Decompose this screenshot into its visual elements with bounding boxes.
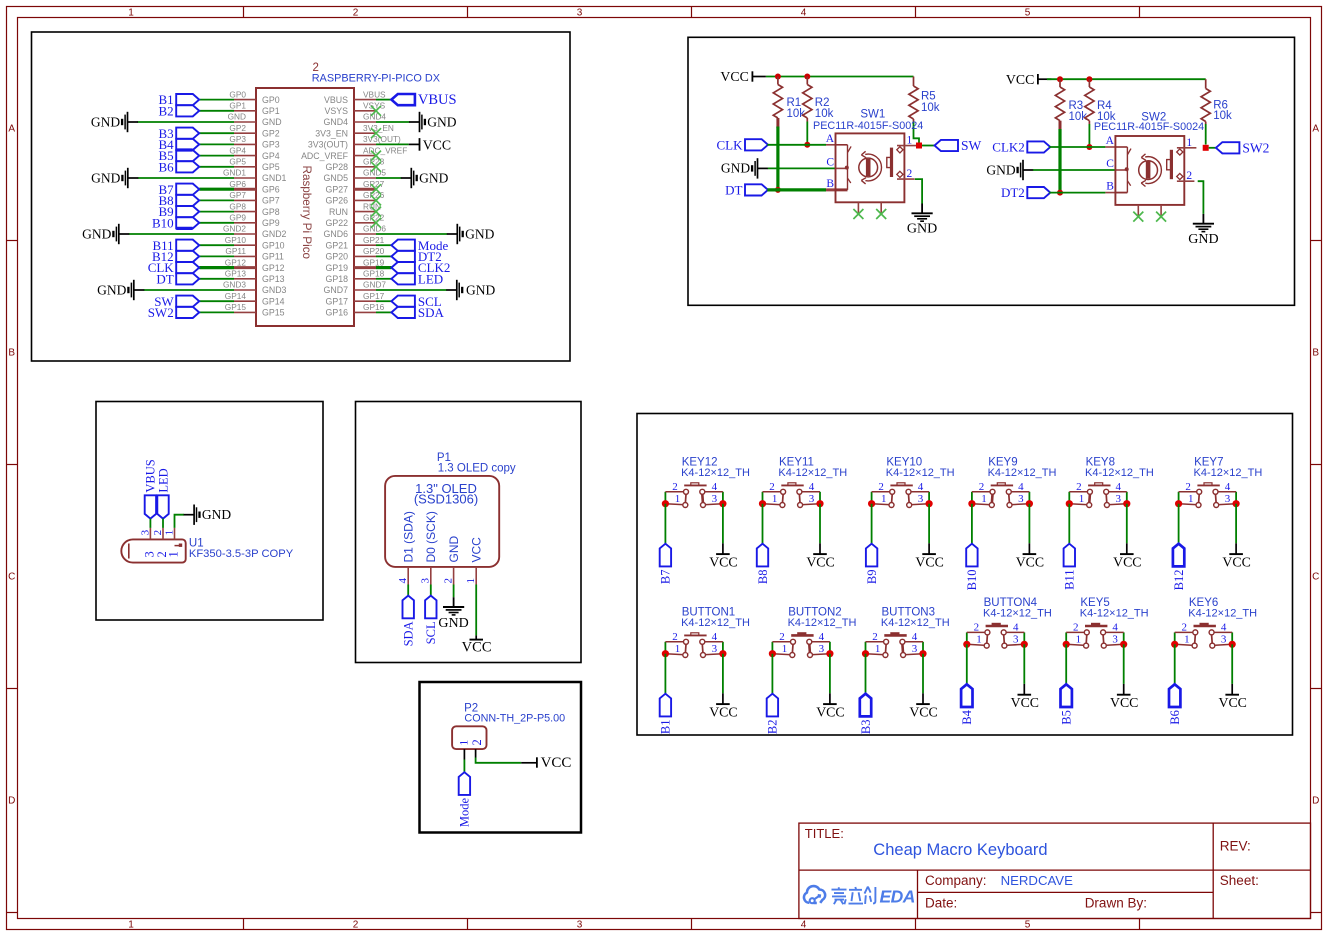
power flag VCC bbox=[1006, 72, 1051, 87]
key switch KEY11 bbox=[763, 457, 848, 508]
svg-text:2: 2 bbox=[979, 481, 985, 493]
svg-text:C: C bbox=[1312, 572, 1319, 583]
wire bbox=[806, 118, 808, 122]
wire bbox=[199, 143, 234, 145]
net flag SW2 bbox=[148, 305, 200, 320]
svg-text:GP14: GP14 bbox=[225, 291, 247, 301]
wire bbox=[129, 233, 234, 235]
wire bbox=[776, 127, 779, 190]
svg-text:GND: GND bbox=[466, 282, 495, 297]
wire bbox=[199, 300, 234, 302]
net flag DT bbox=[156, 271, 199, 286]
no-connect X bbox=[1133, 212, 1143, 222]
svg-text:2: 2 bbox=[442, 578, 454, 584]
svg-text:10k: 10k bbox=[921, 102, 940, 114]
no-connect X bbox=[853, 209, 863, 219]
wire bbox=[376, 244, 391, 246]
svg-text:GND: GND bbox=[447, 536, 461, 563]
svg-text:D0 (SCK): D0 (SCK) bbox=[424, 511, 438, 562]
power flag VCC bbox=[462, 635, 492, 655]
net flag B10 bbox=[152, 215, 199, 230]
svg-text:3: 3 bbox=[1225, 493, 1231, 505]
wire bbox=[913, 119, 915, 122]
svg-text:4: 4 bbox=[1221, 622, 1227, 634]
svg-text:3: 3 bbox=[420, 578, 432, 584]
power flag VCC bbox=[1016, 543, 1044, 569]
svg-text:GP10: GP10 bbox=[262, 240, 285, 250]
net flag B6 bbox=[159, 159, 200, 174]
junction bbox=[719, 500, 726, 507]
net flag B11 bbox=[1063, 544, 1077, 590]
ground bbox=[91, 112, 138, 132]
junction bbox=[1229, 641, 1236, 648]
svg-text:K4-12×12_TH: K4-12×12_TH bbox=[681, 467, 750, 479]
svg-text:GP3: GP3 bbox=[229, 134, 246, 144]
svg-text:CLK2: CLK2 bbox=[992, 140, 1025, 155]
wire bbox=[1068, 504, 1070, 544]
wire bbox=[777, 77, 779, 85]
wire bbox=[1178, 504, 1180, 544]
key switch KEY12 bbox=[665, 457, 750, 508]
svg-text:2: 2 bbox=[974, 622, 980, 634]
svg-text:B11: B11 bbox=[1063, 570, 1077, 590]
net flag SDA bbox=[402, 596, 416, 647]
svg-text:4: 4 bbox=[397, 578, 409, 584]
power flag VCC bbox=[709, 693, 737, 719]
P1 pin 4 D1 (SDA) bbox=[397, 511, 415, 584]
wire bbox=[149, 519, 151, 528]
key switch KEY9 bbox=[972, 457, 1057, 508]
net flag Mode bbox=[458, 772, 472, 827]
svg-text:1: 1 bbox=[907, 135, 913, 147]
wire bbox=[1205, 79, 1207, 88]
svg-text:D1 (SDA): D1 (SDA) bbox=[401, 511, 415, 562]
P2 pin 1 bbox=[458, 740, 470, 760]
svg-text:3V3(OUT): 3V3(OUT) bbox=[308, 140, 348, 150]
junction bbox=[662, 650, 669, 657]
svg-text:GP11: GP11 bbox=[262, 252, 284, 262]
net flag CLK bbox=[148, 260, 200, 275]
svg-text:CONN-TH_2P-P5.00: CONN-TH_2P-P5.00 bbox=[464, 712, 565, 724]
wire bbox=[144, 289, 234, 291]
net flag DT bbox=[725, 183, 768, 198]
junction bbox=[804, 142, 810, 148]
svg-text:GP5: GP5 bbox=[262, 162, 280, 172]
net flag SCL bbox=[391, 294, 441, 309]
svg-text:1: 1 bbox=[675, 643, 681, 655]
border row ticks bbox=[7, 241, 1322, 913]
svg-text:EDA: EDA bbox=[880, 886, 915, 906]
svg-text:3: 3 bbox=[577, 7, 583, 18]
svg-text:GP8: GP8 bbox=[262, 207, 280, 217]
junction bbox=[769, 650, 776, 657]
wire bbox=[199, 278, 234, 280]
component U2 Raspberry Pi Pico body bbox=[256, 88, 354, 326]
wire bbox=[199, 255, 234, 257]
wire bbox=[914, 122, 920, 144]
wire bbox=[922, 145, 935, 147]
wire bbox=[453, 585, 455, 598]
net flag B1 bbox=[159, 92, 200, 107]
svg-text:GP10: GP10 bbox=[225, 235, 247, 245]
svg-text:C: C bbox=[1106, 158, 1114, 170]
svg-text:GP7: GP7 bbox=[229, 190, 246, 200]
svg-text:DT2: DT2 bbox=[1001, 185, 1025, 200]
svg-text:GP2: GP2 bbox=[262, 128, 280, 138]
svg-text:GP26: GP26 bbox=[326, 196, 349, 206]
svg-text:GP0: GP0 bbox=[262, 95, 280, 105]
wire bbox=[768, 167, 836, 169]
wire bbox=[376, 278, 391, 280]
svg-text:GND: GND bbox=[91, 170, 120, 185]
wire bbox=[806, 122, 808, 145]
svg-text:NERDCAVE: NERDCAVE bbox=[1001, 873, 1074, 888]
svg-text:GND3: GND3 bbox=[262, 285, 287, 295]
svg-text:SW1: SW1 bbox=[860, 109, 885, 121]
svg-text:2: 2 bbox=[878, 481, 884, 493]
wire bbox=[1088, 79, 1090, 87]
svg-text:10k: 10k bbox=[1213, 110, 1232, 122]
wire bbox=[162, 519, 164, 528]
svg-text:1: 1 bbox=[167, 551, 181, 557]
svg-text:VCC: VCC bbox=[469, 537, 483, 563]
svg-text:3V3_EN: 3V3_EN bbox=[315, 128, 348, 138]
svg-text:GP17: GP17 bbox=[326, 296, 349, 306]
svg-text:B: B bbox=[1106, 181, 1114, 193]
svg-text:GND4: GND4 bbox=[324, 117, 349, 127]
svg-text:4: 4 bbox=[801, 7, 807, 18]
junction bbox=[1026, 500, 1033, 507]
junction bbox=[826, 650, 833, 657]
wire bbox=[476, 758, 522, 763]
svg-text:K4-12×12_TH: K4-12×12_TH bbox=[881, 617, 950, 629]
svg-text:GND3: GND3 bbox=[223, 280, 246, 290]
component U1 KF350 body bbox=[121, 539, 185, 562]
ground bbox=[721, 158, 768, 178]
svg-text:GP21: GP21 bbox=[363, 235, 385, 245]
power flag VCC bbox=[720, 69, 765, 84]
svg-text:3: 3 bbox=[1018, 493, 1024, 505]
svg-text:GND: GND bbox=[202, 507, 231, 522]
svg-text:GP16: GP16 bbox=[363, 302, 385, 312]
module box Raspberry Pi Pico bbox=[32, 32, 571, 361]
wire bbox=[1198, 181, 1204, 214]
no-connect X bbox=[371, 128, 381, 138]
wire bbox=[966, 644, 968, 684]
power flag VCC bbox=[709, 543, 737, 569]
wire bbox=[199, 110, 234, 112]
resistor R4 bbox=[1085, 87, 1116, 123]
svg-text:SW2: SW2 bbox=[1242, 140, 1269, 155]
svg-text:1: 1 bbox=[675, 493, 681, 505]
svg-text:GP21: GP21 bbox=[326, 240, 349, 250]
svg-text:GP19: GP19 bbox=[363, 257, 385, 267]
wire bbox=[1123, 644, 1125, 684]
svg-text:VCC: VCC bbox=[1222, 554, 1250, 569]
no-connect X bbox=[371, 218, 381, 228]
junction bbox=[1057, 190, 1063, 196]
svg-text:2: 2 bbox=[353, 7, 359, 18]
svg-text:VCC: VCC bbox=[806, 554, 834, 569]
net flag B8 bbox=[756, 544, 770, 584]
net flag B2 bbox=[766, 694, 780, 734]
ground bbox=[409, 112, 457, 132]
svg-text:VCC: VCC bbox=[1011, 695, 1039, 710]
svg-text:3: 3 bbox=[712, 493, 718, 505]
junction bbox=[968, 500, 975, 507]
svg-text:1: 1 bbox=[981, 493, 987, 505]
svg-text:B8: B8 bbox=[756, 570, 770, 585]
svg-text:GND: GND bbox=[228, 112, 246, 122]
wire bbox=[1028, 504, 1030, 544]
svg-text:B12: B12 bbox=[1172, 570, 1186, 591]
P2 pin 2 bbox=[470, 739, 484, 757]
svg-text:GND: GND bbox=[907, 222, 937, 237]
svg-text:K4-12×12_TH: K4-12×12_TH bbox=[1188, 608, 1257, 620]
wire bbox=[766, 76, 914, 78]
net flag VBUS bbox=[391, 92, 456, 108]
svg-text:K4-12×12_TH: K4-12×12_TH bbox=[1080, 608, 1149, 620]
wire bbox=[1174, 644, 1176, 684]
junction bbox=[868, 500, 875, 507]
svg-text:4: 4 bbox=[809, 481, 815, 493]
svg-text:4: 4 bbox=[712, 481, 718, 493]
wire bbox=[138, 121, 235, 123]
svg-text:GP6: GP6 bbox=[262, 184, 280, 194]
svg-text:4: 4 bbox=[801, 920, 807, 931]
net flag B6 bbox=[1168, 684, 1182, 724]
svg-text:VCC: VCC bbox=[1113, 554, 1141, 569]
resistor R5 bbox=[909, 86, 940, 119]
net flag B10 bbox=[965, 544, 979, 591]
svg-text:4: 4 bbox=[1112, 622, 1118, 634]
svg-text:3: 3 bbox=[918, 493, 924, 505]
P1 pin 2 GND bbox=[442, 536, 460, 585]
svg-text:ADC_VREF: ADC_VREF bbox=[363, 145, 407, 155]
svg-text:3: 3 bbox=[1112, 633, 1118, 645]
svg-text:GND: GND bbox=[986, 162, 1015, 177]
key switch KEY5 bbox=[1066, 597, 1148, 648]
wire bbox=[1059, 79, 1061, 87]
svg-text:GP9: GP9 bbox=[229, 213, 246, 223]
no-connect X bbox=[876, 209, 886, 219]
junction bbox=[1066, 500, 1073, 507]
no-connect X bbox=[1156, 212, 1166, 222]
svg-text:VCC: VCC bbox=[462, 639, 492, 655]
junction bbox=[926, 500, 933, 507]
svg-text:TITLE:: TITLE: bbox=[805, 826, 844, 841]
power flag VCC bbox=[409, 138, 451, 153]
wire bbox=[971, 504, 973, 544]
wire bbox=[722, 654, 724, 694]
svg-text:B2: B2 bbox=[766, 720, 780, 735]
wire bbox=[376, 143, 409, 145]
svg-text:4: 4 bbox=[1013, 622, 1019, 634]
key switch BUTTON4 bbox=[967, 597, 1052, 648]
junction bbox=[1021, 641, 1028, 648]
ground bbox=[1188, 214, 1218, 247]
svg-text:2: 2 bbox=[872, 631, 878, 643]
no-connect X bbox=[371, 195, 381, 205]
junction bbox=[719, 650, 726, 657]
svg-text:VCC: VCC bbox=[915, 554, 943, 569]
svg-text:2: 2 bbox=[1185, 481, 1191, 493]
svg-text:ADC_VREF: ADC_VREF bbox=[301, 151, 349, 161]
svg-text:GP11: GP11 bbox=[225, 246, 246, 256]
pin C stub bbox=[1115, 169, 1125, 171]
wire bbox=[806, 77, 808, 85]
wire bbox=[1049, 192, 1105, 194]
junction bbox=[775, 74, 781, 80]
svg-text:GP12: GP12 bbox=[225, 257, 247, 267]
svg-text:Company:: Company: bbox=[925, 873, 987, 888]
svg-text:GP13: GP13 bbox=[262, 274, 285, 284]
svg-text:K4-12×12_TH: K4-12×12_TH bbox=[788, 617, 857, 629]
power flag VCC bbox=[915, 543, 943, 569]
svg-text:(SSD1306): (SSD1306) bbox=[414, 491, 478, 506]
pin A stub bbox=[1105, 146, 1115, 148]
wire bbox=[1231, 644, 1233, 684]
net flag B7 bbox=[659, 544, 673, 584]
wire bbox=[922, 654, 924, 694]
power flag VCC bbox=[1113, 543, 1141, 569]
wire bbox=[819, 504, 821, 544]
svg-text:R5: R5 bbox=[921, 91, 936, 103]
wire bbox=[430, 585, 432, 596]
junction bbox=[1123, 500, 1130, 507]
title block frame bbox=[799, 823, 1311, 918]
svg-text:GP13: GP13 bbox=[225, 269, 247, 279]
svg-text:Drawn By:: Drawn By: bbox=[1085, 896, 1147, 911]
svg-text:1: 1 bbox=[976, 633, 982, 645]
svg-text:GP1: GP1 bbox=[229, 101, 246, 111]
svg-text:K4-12×12_TH: K4-12×12_TH bbox=[1194, 467, 1263, 479]
svg-text:GP2: GP2 bbox=[229, 123, 246, 133]
svg-text:B6: B6 bbox=[1168, 710, 1182, 725]
svg-text:3: 3 bbox=[809, 493, 815, 505]
svg-text:B3: B3 bbox=[859, 720, 873, 735]
net flag B12 bbox=[1172, 544, 1186, 591]
svg-text:3: 3 bbox=[1013, 633, 1019, 645]
junction bbox=[862, 650, 869, 657]
resistor R6 bbox=[1201, 89, 1232, 123]
power flag VCC bbox=[521, 755, 571, 771]
wire bbox=[376, 255, 391, 257]
svg-text:2: 2 bbox=[353, 920, 359, 931]
wire bbox=[865, 654, 867, 694]
wire bbox=[1126, 504, 1128, 544]
svg-text:GP18: GP18 bbox=[363, 269, 385, 279]
svg-text:GND1: GND1 bbox=[262, 173, 287, 183]
wire bbox=[1088, 124, 1090, 147]
net flag LED bbox=[391, 271, 443, 286]
bold flag edge B4/B5 bbox=[176, 148, 192, 151]
wire bbox=[1059, 121, 1062, 131]
wire bbox=[199, 222, 234, 224]
power flag VCC bbox=[1219, 684, 1247, 710]
wire bbox=[376, 311, 391, 313]
svg-text:GND7: GND7 bbox=[324, 285, 349, 295]
svg-text:GP0: GP0 bbox=[229, 89, 246, 99]
svg-text:10k: 10k bbox=[1069, 111, 1088, 123]
svg-text:B: B bbox=[826, 178, 834, 190]
svg-text:4: 4 bbox=[1018, 481, 1024, 493]
svg-text:1: 1 bbox=[128, 7, 134, 18]
svg-text:4: 4 bbox=[912, 631, 918, 643]
net flag LED bbox=[156, 468, 170, 518]
svg-text:GP3: GP3 bbox=[262, 140, 280, 150]
key switch KEY8 bbox=[1069, 457, 1154, 508]
U1 pin 1 bbox=[163, 528, 182, 558]
svg-text:3: 3 bbox=[819, 643, 825, 655]
svg-text:B7: B7 bbox=[659, 570, 673, 585]
svg-text:1: 1 bbox=[163, 530, 175, 536]
net flag CLK2 bbox=[391, 260, 450, 275]
svg-text:5: 5 bbox=[1025, 7, 1031, 18]
svg-text:VCC: VCC bbox=[816, 704, 844, 719]
svg-text:GP1: GP1 bbox=[262, 106, 280, 116]
svg-text:VBUS: VBUS bbox=[363, 89, 386, 99]
wire bbox=[1049, 146, 1105, 148]
ground bbox=[82, 224, 129, 244]
svg-text:KF350-3.5-3P COPY: KF350-3.5-3P COPY bbox=[189, 548, 294, 560]
net flag SCL bbox=[424, 596, 438, 645]
wire bbox=[199, 188, 234, 191]
svg-text:VBUS: VBUS bbox=[418, 92, 457, 108]
svg-text:1.3 OLED copy: 1.3 OLED copy bbox=[438, 462, 516, 474]
resistor R3 bbox=[1055, 87, 1087, 123]
pin C stub bbox=[836, 167, 846, 169]
net flag B4 bbox=[159, 137, 200, 152]
ground bbox=[184, 505, 232, 525]
wire bbox=[376, 289, 447, 291]
key switch KEY10 bbox=[872, 457, 955, 508]
key switch BUTTON2 bbox=[772, 607, 856, 658]
net flag B12 bbox=[152, 249, 199, 264]
svg-text:VCC: VCC bbox=[1016, 554, 1044, 569]
svg-text:2: 2 bbox=[1186, 170, 1192, 182]
svg-text:GND: GND bbox=[427, 114, 456, 129]
svg-text:GP20: GP20 bbox=[363, 246, 385, 256]
svg-text:GP6: GP6 bbox=[229, 179, 246, 189]
svg-text:K4-12×12_TH: K4-12×12_TH bbox=[1085, 467, 1154, 479]
module box mode connector P2 bbox=[420, 682, 582, 833]
junction bbox=[1086, 76, 1092, 82]
wire bbox=[199, 211, 234, 213]
wire bbox=[376, 233, 447, 235]
border column labels bbox=[128, 7, 1031, 930]
svg-text:3: 3 bbox=[577, 920, 583, 931]
svg-text:1: 1 bbox=[458, 740, 470, 746]
net flag B3 bbox=[859, 694, 873, 734]
key switch KEY6 bbox=[1175, 597, 1257, 648]
svg-text:GP22: GP22 bbox=[326, 218, 349, 228]
svg-text:2: 2 bbox=[672, 481, 678, 493]
svg-text:VBUS: VBUS bbox=[324, 95, 348, 105]
svg-text:1: 1 bbox=[782, 643, 788, 655]
svg-text:GP4: GP4 bbox=[262, 151, 280, 161]
svg-text:5: 5 bbox=[1025, 920, 1031, 931]
net flag VBUS bbox=[144, 459, 158, 518]
svg-text:VCC: VCC bbox=[1110, 695, 1138, 710]
junction bbox=[919, 650, 926, 657]
svg-text:GND5: GND5 bbox=[324, 173, 349, 183]
resistor R2 bbox=[803, 85, 834, 121]
ground bbox=[438, 597, 468, 631]
svg-text:LED: LED bbox=[156, 468, 170, 492]
svg-text:GP7: GP7 bbox=[262, 196, 280, 206]
svg-text:GND: GND bbox=[465, 226, 494, 241]
